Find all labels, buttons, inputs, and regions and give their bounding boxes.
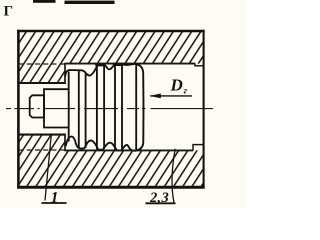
svg-text:1: 1	[51, 189, 59, 206]
lower insert block right edge	[64, 134, 66, 151]
leader line for 2,3	[172, 149, 175, 203]
corrugation flank line 5	[103, 66, 105, 150]
label 2,3 underline	[146, 202, 176, 204]
bore floor step near right face	[193, 145, 204, 151]
svg-text:Г: Г	[4, 4, 14, 20]
body outline top edge	[17, 30, 204, 33]
corrugation flank line 4	[96, 66, 98, 149]
body outline bottom edge	[17, 186, 205, 189]
corrugation flank line 1	[68, 72, 70, 142]
svg-text:D: D	[170, 76, 183, 95]
bolt nub (chamfered plug end)	[30, 95, 44, 117]
bolt cylinder	[44, 88, 69, 128]
dashed joint line lower	[19, 149, 65, 151]
corrugation flank line 8	[135, 64, 137, 150]
corrugation flank line 7	[121, 65, 123, 151]
hatched bottom band + left lower block (die body, section)	[19, 135, 204, 188]
lower insert block top edge	[18, 134, 66, 136]
centerline dash-dot	[6, 108, 213, 110]
body outline left edge	[17, 30, 20, 189]
label 1 underline	[42, 202, 67, 204]
bore floor edge (bottom band top)	[65, 149, 194, 151]
corrugation flank line 3	[85, 74, 87, 148]
leader line for 1	[45, 136, 51, 201]
scan remnant bar top 1	[33, 0, 56, 3]
corrugated workpiece top profile	[65, 64, 134, 77]
corrugated workpiece right cap	[134, 64, 143, 151]
left insert block right edge	[64, 63, 66, 84]
dashed joint line upper	[19, 63, 65, 65]
svg-text:2,3: 2,3	[149, 190, 169, 206]
scan remnant bar top 2	[65, 1, 115, 4]
hatched top band + left block (die body, section)	[19, 31, 204, 83]
corrugation flank line 2	[78, 71, 80, 148]
dark contact blob upper left	[97, 63, 104, 66]
arrow line for Dг	[150, 95, 192, 97]
bore ceiling edge (top band bottom)	[65, 63, 196, 65]
left insert block bottom edge	[18, 82, 66, 84]
dark contact blob upper right	[114, 63, 121, 66]
corrugation flank line 6	[114, 65, 116, 150]
svg-text:г: г	[184, 86, 188, 96]
arrowhead pointing left	[150, 94, 161, 99]
body outline right edge (face across bore opening)	[203, 30, 205, 188]
bore ceiling step near right face	[195, 64, 204, 66]
corrugated workpiece bottom profile	[66, 137, 135, 151]
